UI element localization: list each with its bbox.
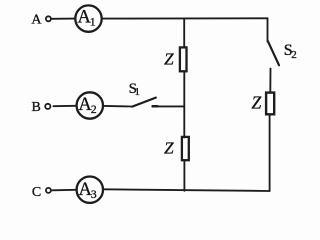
svg-text:Z: Z <box>164 139 174 158</box>
switch S1 blade <box>132 98 156 107</box>
svg-text:Z: Z <box>252 92 262 112</box>
svg-text:1: 1 <box>90 16 96 28</box>
terminal C <box>46 188 51 193</box>
svg-text:C: C <box>32 185 41 200</box>
switch S2 label <box>284 42 297 61</box>
wire middle bus center segment <box>183 72 185 138</box>
wire S1 fixed contact to middle bus <box>153 105 184 107</box>
impedance Z (lower middle) <box>182 137 189 160</box>
svg-text:1: 1 <box>135 87 140 98</box>
svg-text:2: 2 <box>291 49 297 61</box>
terminal B <box>45 104 50 109</box>
terminal A <box>46 16 51 21</box>
ammeter A1 <box>75 5 101 31</box>
wire terminal B to ammeter A2 <box>53 105 75 107</box>
wire middle bus lower segment <box>183 161 185 191</box>
wire impedance Z (right) to bottom-right corner <box>269 116 271 192</box>
impedance Z (upper middle) <box>180 47 187 71</box>
switch S2 blade <box>268 41 279 65</box>
wire middle bus upper segment <box>183 19 185 48</box>
wire A3 to bottom-right corner <box>104 189 269 191</box>
wire terminal C to ammeter A3 <box>52 189 76 192</box>
switch S1 fixed contact nub <box>153 105 158 108</box>
wire S2 to impedance Z (right) <box>269 69 271 93</box>
ammeter A3 <box>77 177 103 203</box>
wire top-right corner drop <box>267 18 269 41</box>
wire A1 to top-right corner <box>103 17 268 19</box>
wire terminal A to ammeter A1 <box>52 18 75 20</box>
impedance Z (right) <box>266 93 274 115</box>
svg-text:B: B <box>32 100 41 115</box>
wire A2 to switch S1 pivot <box>104 105 132 108</box>
svg-text:Z: Z <box>164 50 174 69</box>
switch S1 label <box>129 81 140 98</box>
ammeter A2 <box>77 92 103 118</box>
svg-text:A: A <box>31 12 42 27</box>
svg-text:2: 2 <box>91 104 97 116</box>
svg-text:3: 3 <box>91 189 97 201</box>
